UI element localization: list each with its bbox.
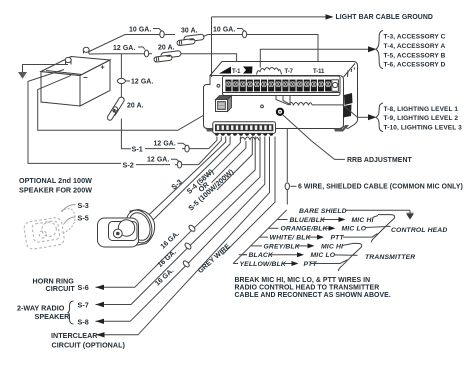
terminal screws	[225, 80, 331, 92]
svg-text:WHITE/ BLK: WHITE/ BLK	[270, 235, 312, 242]
brace 2-way radio group	[68, 301, 74, 324]
svg-text:SPEAKER FOR 200W: SPEAKER FOR 200W	[19, 186, 92, 195]
terminal strip TB1	[223, 76, 341, 96]
label 12 GA. (top)	[113, 45, 149, 57]
svg-text:S-5: S-5	[78, 214, 89, 223]
unit foot right	[334, 125, 349, 132]
svg-text:RRB ADJUSTMENT: RRB ADJUSTMENT	[347, 157, 413, 164]
wire S-3 speaker lead	[149, 137, 226, 215]
wire squiggle below strip (lighting bundle)	[276, 96, 358, 118]
svg-text:BLUE/BLK: BLUE/BLK	[290, 217, 327, 224]
ground	[18, 65, 68, 79]
label ORANGE/BLK MIC LO row	[281, 226, 386, 233]
wire 12GA drop with fuse 20A to S-1	[120, 54, 122, 98]
wire grey to interclear	[96, 137, 270, 335]
wire stub A into bundle	[207, 137, 240, 177]
svg-text:T-1: T-1	[232, 69, 241, 75]
wire 16GA to S-7	[96, 137, 261, 305]
label BLUE/BLK MIC HI row	[290, 216, 379, 224]
svg-text:−: −	[83, 73, 88, 82]
mic tick ORANGE/BLK	[268, 227, 278, 229]
label 10 GA. (second)	[213, 27, 247, 38]
wire light bar cable ground	[212, 14, 433, 21]
dark blobs right face	[343, 93, 353, 118]
label S-3 with leader to ghost speaker	[62, 201, 89, 212]
wire 6-wire shielded cable from case bottom	[286, 129, 288, 183]
svg-text:10 GA.: 10 GA.	[129, 27, 151, 34]
svg-text:20 A.: 20 A.	[158, 45, 175, 52]
fuse 20A (horizontal)	[154, 45, 182, 63]
svg-text:PTT: PTT	[304, 261, 318, 268]
battery BT1	[41, 57, 110, 107]
strip end screw (open)	[332, 80, 339, 92]
svg-text:T-4, ACCESSORY A: T-4, ACCESSORY A	[384, 43, 446, 50]
wire squiggle above strip (accessory bundle)	[257, 68, 282, 75]
svg-text:12 GA.: 12 GA.	[154, 141, 176, 148]
svg-text:MIC HI: MIC HI	[352, 217, 374, 224]
svg-text:S-6: S-6	[78, 283, 89, 292]
mic tick BLACK	[242, 254, 247, 256]
svg-text:S-2: S-2	[123, 161, 134, 170]
svg-text:S-3: S-3	[78, 201, 89, 210]
label YELLOW/BLK PTT row	[240, 260, 348, 268]
screw hole dot middle	[261, 105, 264, 108]
wire 10GA from battery + to fuse 30A	[88, 35, 175, 53]
connector squiggle strain relief	[240, 137, 259, 141]
svg-text:GREY/BLK: GREY/BLK	[264, 243, 301, 250]
svg-text:30 A.: 30 A.	[181, 28, 198, 35]
svg-text:12 GA.: 12 GA.	[147, 157, 169, 164]
wire accessory bundle up to brace arrow	[260, 49, 368, 67]
svg-text:SPEAKER: SPEAKER	[35, 312, 71, 321]
node S-7	[78, 301, 105, 310]
RRB adjustment pot	[276, 108, 284, 116]
siren amplifier unit U1 case	[204, 62, 358, 129]
brace control head	[371, 215, 394, 243]
label HORN RING CIRCUIT	[33, 277, 76, 294]
svg-text:BLACK: BLACK	[249, 252, 274, 259]
svg-text:ORANGE/BLK: ORANGE/BLK	[281, 226, 329, 233]
wire stub v5 into bundle	[223, 137, 276, 255]
black arrow icon right of T-1	[243, 67, 253, 74]
svg-text:LIGHT BAR CABLE GROUND: LIGHT BAR CABLE GROUND	[336, 14, 433, 21]
bottom connector J1	[213, 122, 276, 136]
label S-4 (58W) OR S-5 (100W/200W) rotated	[177, 157, 235, 213]
svg-text:T-7: T-7	[285, 69, 294, 75]
svg-text:YELLOW/BLK: YELLOW/BLK	[240, 261, 287, 268]
svg-text:6 WIRE, SHIELDED CABLE (COMMON: 6 WIRE, SHIELDED CABLE (COMMON MIC ONLY)	[298, 184, 463, 191]
wire 16GA to S-6	[96, 137, 256, 288]
svg-text:CIRCUIT: CIRCUIT	[46, 284, 76, 293]
svg-text:S-7: S-7	[78, 301, 89, 310]
label INTERCLEAR CIRCUIT (OPTIONAL)	[51, 331, 126, 350]
node S-1 row	[132, 141, 209, 154]
battery terminal negative	[65, 57, 71, 64]
label BARE SHIELD row with ground arrow	[299, 208, 414, 220]
brace transmitter	[338, 243, 361, 271]
label 10 GA. (first)	[129, 27, 164, 38]
wire 16GA to S-8	[96, 137, 265, 322]
unit foot left	[206, 129, 214, 132]
speaker SP1	[98, 207, 157, 247]
fuse 20A (vertical, near battery)	[106, 96, 143, 121]
svg-text:S-8: S-8	[78, 318, 89, 327]
molex connector J2	[216, 96, 232, 112]
wire S-1 to connector pin1	[209, 137, 217, 149]
svg-text:BARE SHIELD: BARE SHIELD	[299, 208, 347, 215]
label 2-WAY RADIO SPEAKER	[17, 304, 70, 322]
svg-text:CIRCUIT (OPTIONAL): CIRCUIT (OPTIONAL)	[52, 341, 126, 350]
svg-text:TRANSMITTER: TRANSMITTER	[365, 254, 415, 261]
label OPTIONAL 2nd 100W SPEAKER FOR 200W	[19, 176, 92, 195]
fuse 30A	[177, 28, 205, 46]
arrow to lighting labels	[358, 114, 377, 120]
mic tick WHITE/BLK	[260, 236, 269, 238]
svg-text:MIC LO: MIC LO	[342, 226, 367, 233]
svg-text:T-9, LIGHTING LEVEL 2: T-9, LIGHTING LEVEL 2	[384, 115, 459, 122]
svg-text:12 GA.: 12 GA.	[113, 45, 135, 52]
mic cable spine splitting to rows	[233, 210, 287, 264]
mic tick GREY/BLK	[251, 245, 262, 247]
leader to RRB text	[283, 115, 345, 159]
wire S-2 to connector pin2	[199, 137, 222, 165]
svg-text:BREAK MIC HI, MIC LO, & PTT WI: BREAK MIC HI, MIC LO, & PTT WIRES IN	[235, 277, 371, 284]
wire battery feed down to horizontal run	[38, 75, 204, 130]
svg-text:OPTIONAL 2nd 100W: OPTIONAL 2nd 100W	[19, 176, 92, 185]
ghost speaker (optional 2nd)	[22, 208, 79, 250]
svg-text:RADIO CONTROL HEAD TO TRANSMIT: RADIO CONTROL HEAD TO TRANSMITTER	[235, 285, 380, 292]
svg-text:T-8, LIGHTING LEVEL 1: T-8, LIGHTING LEVEL 1	[384, 106, 459, 113]
wire stub B (squiggle wire) into bundle	[212, 141, 246, 183]
svg-text:T-6, ACCESSORY D: T-6, ACCESSORY D	[384, 62, 446, 69]
splice ellipse 16GA S-6	[188, 224, 196, 232]
svg-text:INTERCLEAR: INTERCLEAR	[51, 331, 98, 340]
svg-text:T-11: T-11	[313, 69, 325, 75]
label GREY/BLK MIC HI row	[264, 243, 353, 250]
svg-text:+: +	[101, 65, 105, 72]
brace lighting group	[376, 103, 383, 132]
battery terminal positive	[83, 47, 89, 54]
svg-text:MIC HI: MIC HI	[321, 243, 343, 250]
wire battery to S-2 down left side	[28, 70, 121, 164]
svg-text:10 GA.: 10 GA.	[213, 27, 235, 34]
wire 10GA from fuse to unit T-11	[203, 35, 318, 69]
svg-text:T-10, LIGHTING LEVEL 3: T-10, LIGHTING LEVEL 3	[384, 124, 463, 131]
label BLACK MIC LO row	[239, 252, 353, 259]
brace accessory group	[376, 31, 383, 69]
wire light bar ground into case	[211, 17, 213, 77]
svg-text:T-5, ACCESSORY B: T-5, ACCESSORY B	[384, 52, 446, 59]
splice ellipse 16GA S-7	[184, 242, 192, 250]
svg-text:PTT: PTT	[331, 235, 345, 242]
label S-5 with leader to ghost speaker	[64, 214, 89, 225]
svg-text:T-3, ACCESSORY C: T-3, ACCESSORY C	[384, 34, 446, 41]
node S-8	[78, 318, 105, 327]
arrow to accessory labels	[368, 46, 377, 52]
label 6 WIRE SHIELDED CABLE	[291, 184, 463, 191]
screw hole dot left	[217, 84, 220, 87]
svg-text:S-1: S-1	[132, 145, 143, 154]
splice ellipse 6 wire cable	[285, 183, 289, 190]
wire stub C into bundle	[217, 137, 252, 190]
svg-text:CABLE AND RECONNECT AS SHOWN A: CABLE AND RECONNECT AS SHOWN ABOVE.	[235, 292, 391, 299]
wire S-4/S-5 speaker lead	[152, 137, 231, 222]
mic tick BLUE/BLK	[277, 219, 287, 221]
svg-text:MIC LO: MIC LO	[311, 252, 336, 259]
label 12 GA. (battery drop)	[117, 78, 153, 85]
black arrow icon left of T-1	[219, 67, 231, 74]
vent marks right face	[348, 68, 355, 78]
svg-text:CONTROL HEAD: CONTROL HEAD	[391, 227, 447, 234]
svg-text:20 A.: 20 A.	[127, 103, 144, 110]
splice ellipse 16GA S-8	[182, 260, 190, 268]
note text BREAK MIC	[235, 277, 391, 299]
node S-6	[78, 283, 105, 292]
svg-text:12 GA.: 12 GA.	[131, 79, 153, 86]
wire 12GA from battery + across to unit T-1	[89, 53, 152, 55]
label WHITE/BLK PTT row	[270, 234, 378, 242]
mic tick YELLOW/BLK	[233, 263, 238, 265]
node S-2 row	[123, 157, 199, 170]
